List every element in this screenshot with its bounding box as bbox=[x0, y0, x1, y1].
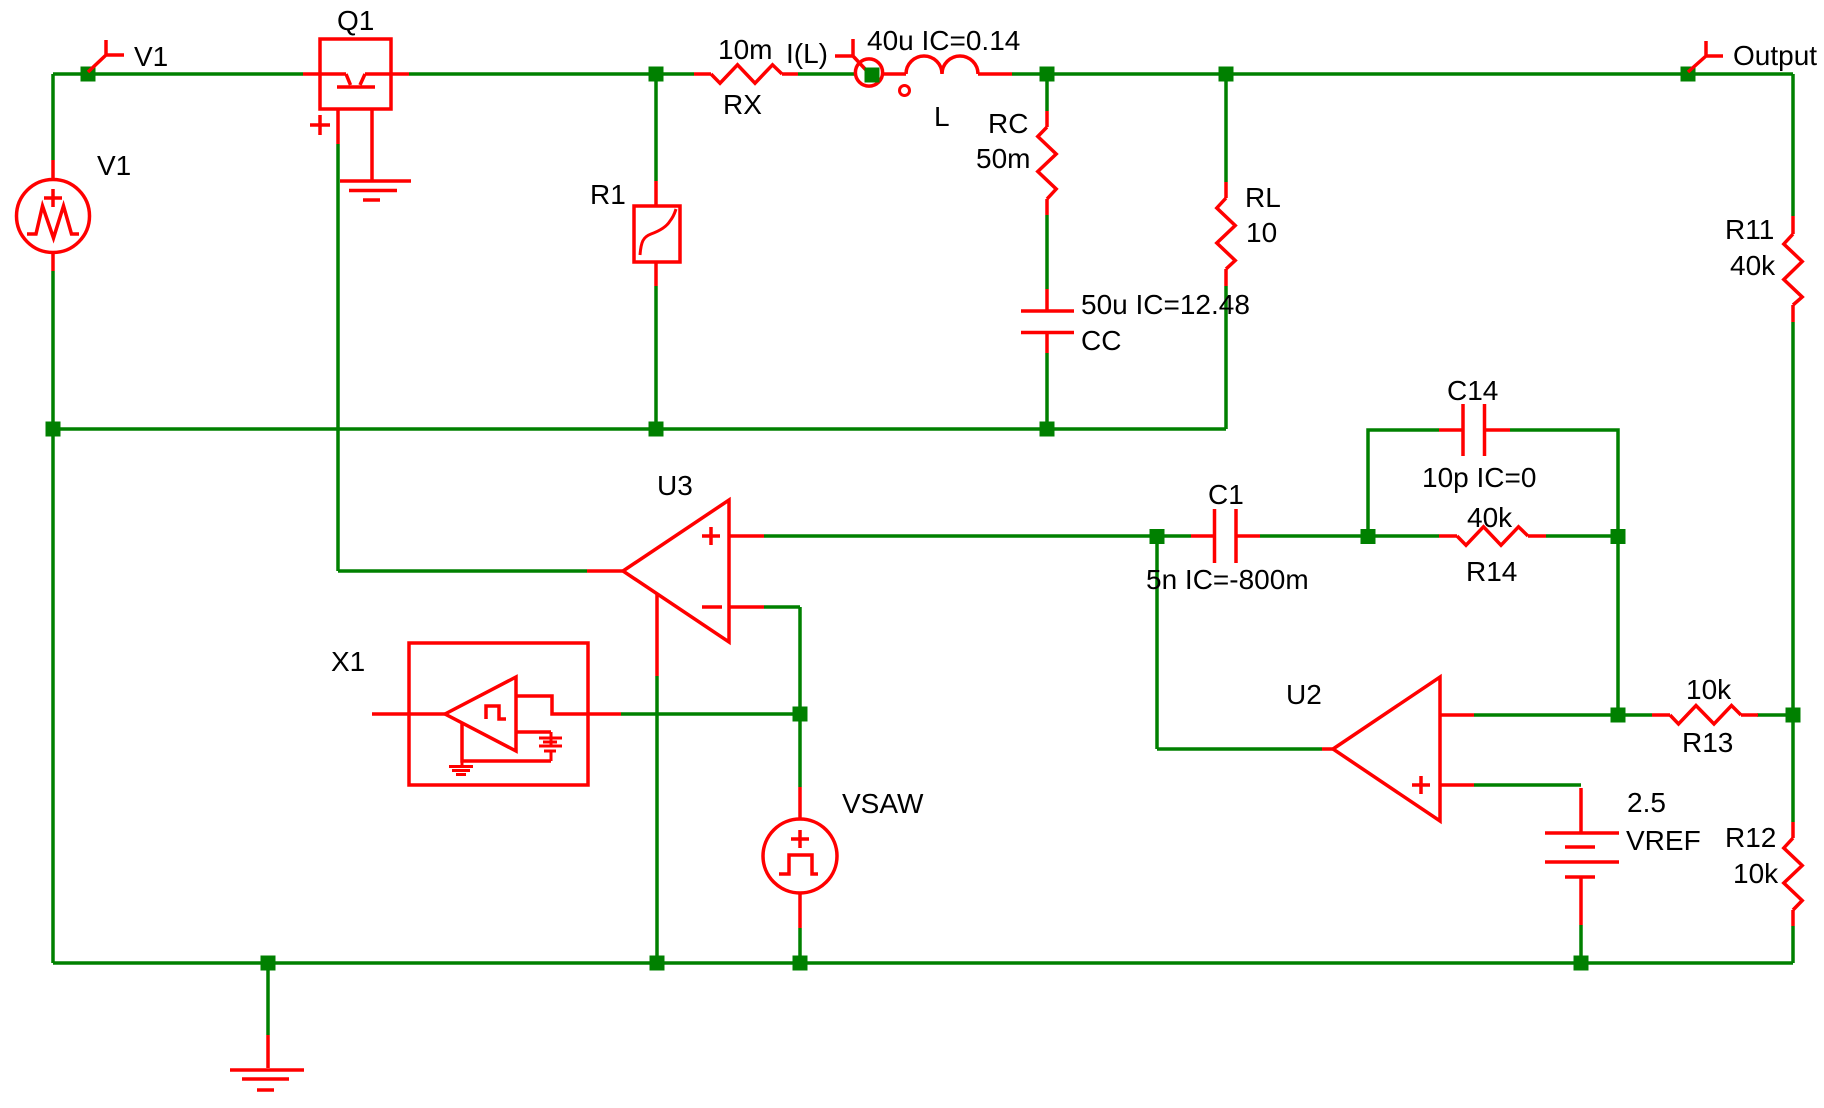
wire RL column lower bbox=[1224, 286, 1228, 429]
svg-text:10p IC=0: 10p IC=0 bbox=[1422, 462, 1536, 493]
wire bottom rail bbox=[53, 961, 1793, 965]
svg-text:Output: Output bbox=[1733, 40, 1817, 71]
svg-text:VREF: VREF bbox=[1626, 825, 1701, 856]
wire U3 minus input bbox=[764, 605, 800, 609]
svg-text:RX: RX bbox=[723, 89, 762, 120]
wire C1 node down to U2 out bbox=[1155, 536, 1159, 749]
pin Output bbox=[1688, 41, 1723, 72]
wire R1 column upper bbox=[654, 74, 658, 181]
node ground junction bbox=[261, 956, 276, 971]
node CC bottom junction bbox=[1040, 422, 1055, 437]
svg-text:10: 10 bbox=[1246, 217, 1277, 248]
wire R13 left lead bbox=[1618, 713, 1652, 717]
op-amp U2 bbox=[1333, 677, 1440, 821]
resistor R14 bbox=[1439, 534, 1457, 538]
wire Q1 gate leg down bbox=[336, 144, 340, 571]
inductor L bbox=[881, 72, 906, 76]
wire left rail lower bbox=[51, 271, 55, 963]
resistor R1 (nonlinear) bbox=[654, 181, 658, 286]
wire R13 right lead bbox=[1757, 713, 1793, 717]
wire left rail upper bbox=[51, 74, 55, 160]
wire right rail upper bbox=[1791, 74, 1795, 216]
wire C1 left lead bbox=[1157, 534, 1191, 538]
svg-text:10m: 10m bbox=[718, 34, 772, 65]
svg-text:X1: X1 bbox=[331, 646, 365, 677]
resistor RX bbox=[694, 72, 711, 76]
svg-text:40u IC=0.14: 40u IC=0.14 bbox=[867, 25, 1020, 56]
svg-text:RC: RC bbox=[988, 108, 1028, 139]
capacitor CC bbox=[1045, 289, 1049, 353]
node VSAW bottom junction bbox=[793, 956, 808, 971]
resistor RC bbox=[1045, 111, 1049, 127]
capacitor C14 bbox=[1439, 428, 1510, 432]
ground Q1 bbox=[340, 181, 411, 200]
wire C14 branch right bbox=[1510, 430, 1618, 536]
node R1 bottom junction bbox=[649, 422, 664, 437]
wire U3 minus down to VSAW bbox=[798, 607, 802, 787]
node VREF bottom junction bbox=[1574, 956, 1589, 971]
op-amp U3 bbox=[623, 500, 729, 642]
node left bus junction bbox=[46, 422, 61, 437]
node V1 pin junction bbox=[81, 67, 96, 82]
svg-text:CC: CC bbox=[1081, 325, 1121, 356]
node RL top junction bbox=[1219, 67, 1234, 82]
capacitor C1 bbox=[1191, 534, 1260, 538]
ground bottom left bbox=[266, 1035, 270, 1068]
wire U3 output bbox=[338, 569, 587, 573]
svg-text:U3: U3 bbox=[657, 470, 693, 501]
wire mid bus y=429 bbox=[53, 427, 1226, 431]
svg-text:R1: R1 bbox=[590, 179, 626, 210]
voltage source V1 bbox=[51, 160, 55, 271]
svg-text:2.5: 2.5 bbox=[1627, 787, 1666, 818]
wire VREF bottom bbox=[1579, 925, 1583, 963]
wire top rail L to right corner bbox=[1012, 72, 1793, 76]
wire C1 right to C14 node bbox=[1260, 534, 1368, 538]
svg-text:C14: C14 bbox=[1447, 375, 1498, 406]
wire top rail Q1 to RX bbox=[409, 72, 694, 76]
wire CC to bus bbox=[1045, 353, 1049, 429]
svg-text:V1: V1 bbox=[97, 150, 131, 181]
svg-text:R14: R14 bbox=[1466, 556, 1517, 587]
svg-text:10k: 10k bbox=[1686, 674, 1732, 705]
wire U3 plus input to C1 bbox=[764, 534, 1157, 538]
svg-text:C1: C1 bbox=[1208, 479, 1244, 510]
svg-text:R12: R12 bbox=[1725, 822, 1776, 853]
wire VSAW bottom bbox=[798, 928, 802, 963]
wire U2 top input bbox=[1474, 713, 1618, 717]
svg-text:RL: RL bbox=[1245, 182, 1281, 213]
wire R14 right lead bbox=[1546, 534, 1618, 538]
wire RC to CC bbox=[1045, 215, 1049, 289]
wire top rail RX to probe bbox=[798, 72, 856, 76]
wire top rail segment left bbox=[53, 72, 303, 76]
svg-text:10k: 10k bbox=[1733, 858, 1779, 889]
wire X1 output to junction bbox=[621, 712, 800, 716]
node R13 left junction bbox=[1611, 708, 1626, 723]
resistor R13 bbox=[1652, 713, 1670, 717]
wire ground stem bbox=[266, 963, 270, 1035]
node Output junction bbox=[1681, 67, 1696, 82]
pin V1 bbox=[88, 40, 124, 72]
wire U2 plus input bbox=[1474, 783, 1581, 787]
svg-text:VSAW: VSAW bbox=[842, 788, 924, 819]
node RC top junction bbox=[1040, 67, 1055, 82]
node R1 top junction bbox=[649, 67, 664, 82]
transistor Q1 (switch) bbox=[320, 39, 391, 109]
node U3 leg bottom junction bbox=[650, 956, 665, 971]
resistor R12 bbox=[1791, 822, 1795, 838]
wire RC column upper bbox=[1045, 74, 1049, 111]
resistor RL bbox=[1224, 182, 1228, 198]
svg-text:50u IC=12.48: 50u IC=12.48 bbox=[1081, 289, 1250, 320]
svg-text:40k: 40k bbox=[1730, 250, 1776, 281]
svg-text:50m: 50m bbox=[976, 143, 1030, 174]
svg-text:R13: R13 bbox=[1682, 727, 1733, 758]
wire U2 output bbox=[1157, 747, 1322, 751]
svg-text:L: L bbox=[934, 101, 950, 132]
wire U3 ref leg down bbox=[655, 676, 659, 963]
svg-text:Q1: Q1 bbox=[337, 5, 374, 36]
pin I(L) bbox=[835, 39, 866, 70]
current probe I(L) bbox=[855, 59, 882, 86]
battery VREF bbox=[1579, 788, 1583, 925]
node R13 right junction bbox=[1786, 708, 1801, 723]
wire C14 branch left riser bbox=[1368, 430, 1439, 536]
svg-text:40k: 40k bbox=[1467, 502, 1513, 533]
source VSAW bbox=[798, 787, 802, 928]
wire right rail lower bbox=[1791, 926, 1795, 963]
node X1 out junction bbox=[793, 707, 808, 722]
svg-text:V1: V1 bbox=[134, 41, 168, 72]
wire R1 column lower bbox=[654, 286, 658, 429]
svg-text:I(L): I(L) bbox=[786, 38, 828, 69]
node C14 left junction bbox=[1361, 529, 1376, 544]
node C1 left junction bbox=[1150, 529, 1165, 544]
wire RL column upper bbox=[1224, 74, 1228, 182]
resistor R11 bbox=[1791, 216, 1795, 234]
wire R14 node down to R13 bbox=[1616, 536, 1620, 715]
subckt X1 bbox=[409, 643, 588, 785]
node R14 right junction bbox=[1611, 529, 1626, 544]
svg-text:R11: R11 bbox=[1725, 214, 1774, 245]
svg-text:5n IC=-800m: 5n IC=-800m bbox=[1146, 564, 1309, 595]
svg-text:U2: U2 bbox=[1286, 679, 1322, 710]
wire right rail middle bbox=[1791, 322, 1795, 822]
wire R14 left lead bbox=[1368, 534, 1439, 538]
